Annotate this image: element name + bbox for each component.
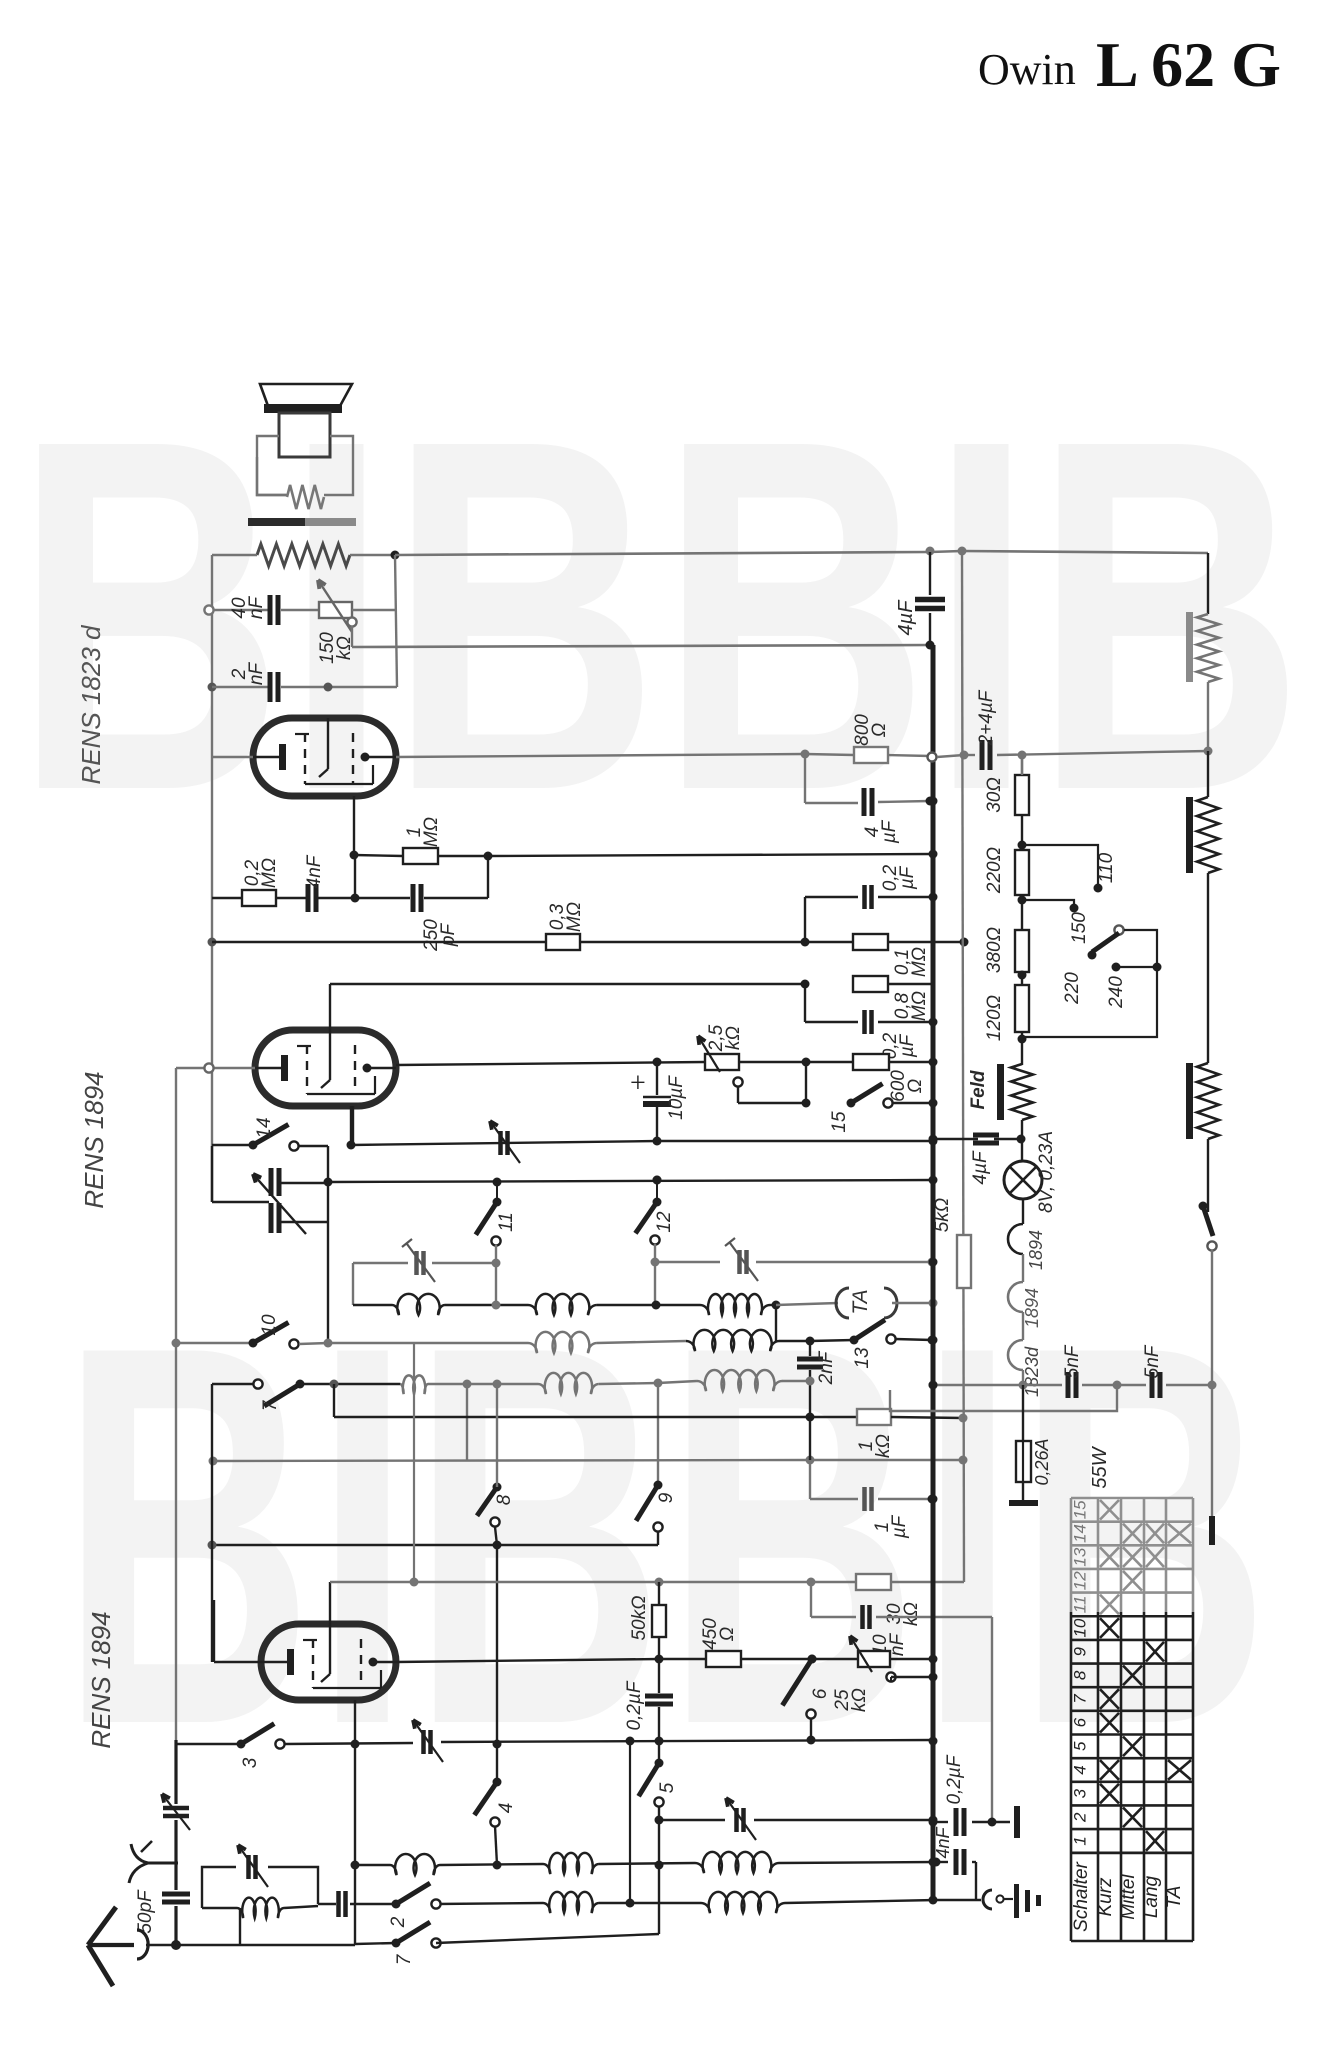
svg-text:1894: 1894 (1026, 1230, 1046, 1270)
svg-text:10: 10 (1071, 1618, 1090, 1637)
svg-text:8: 8 (494, 1494, 515, 1505)
svg-text:4: 4 (1071, 1765, 1090, 1774)
svg-text:0,2µF: 0,2µF (944, 1754, 965, 1804)
svg-text:7: 7 (260, 1399, 281, 1411)
svg-text:5: 5 (1071, 1741, 1090, 1751)
svg-text:4µF: 4µF (970, 1150, 991, 1185)
svg-text:5nF: 5nF (1142, 1344, 1163, 1378)
svg-text:Owin: Owin (978, 45, 1076, 94)
svg-text:8: 8 (1071, 1670, 1090, 1680)
svg-text:9: 9 (1071, 1646, 1090, 1656)
svg-text:2: 2 (388, 1916, 409, 1928)
svg-text:10: 10 (259, 1314, 280, 1336)
svg-text:0,1MΩ: 0,1MΩ (892, 947, 930, 977)
svg-text:50pF: 50pF (135, 1889, 156, 1934)
svg-text:4: 4 (496, 1803, 517, 1814)
svg-text:7: 7 (394, 1953, 415, 1965)
svg-text:Feld: Feld (968, 1070, 989, 1109)
svg-text:L 62 G: L 62 G (1096, 29, 1281, 100)
svg-text:150kΩ: 150kΩ (317, 632, 355, 664)
svg-text:0,2µF: 0,2µF (880, 864, 918, 891)
svg-text:RENS 1823 d: RENS 1823 d (76, 624, 106, 785)
svg-text:2+4µF: 2+4µF (976, 689, 997, 746)
svg-text:9: 9 (656, 1492, 677, 1503)
svg-text:Schalter: Schalter (1071, 1861, 1092, 1931)
svg-text:220Ω: 220Ω (984, 847, 1005, 894)
svg-text:4µF: 4µF (895, 599, 917, 636)
svg-text:TA: TA (849, 1289, 872, 1314)
svg-text:TA: TA (1164, 1886, 1185, 1909)
svg-text:25kΩ: 25kΩ (832, 1688, 870, 1712)
svg-text:12: 12 (654, 1211, 675, 1233)
svg-text:3: 3 (1071, 1788, 1090, 1798)
svg-text:11: 11 (1071, 1596, 1090, 1614)
svg-text:14: 14 (1071, 1524, 1090, 1543)
svg-text:8V, 0,23A: 8V, 0,23A (1036, 1131, 1057, 1213)
svg-text:0,26A: 0,26A (1032, 1438, 1052, 1485)
svg-text:+: + (630, 1068, 646, 1099)
svg-text:0,2MΩ: 0,2MΩ (242, 858, 280, 888)
svg-text:150: 150 (1069, 912, 1090, 944)
svg-text:2,5kΩ: 2,5kΩ (706, 1024, 744, 1052)
svg-text:7: 7 (1071, 1694, 1090, 1704)
svg-text:1823d: 1823d (1022, 1346, 1042, 1397)
svg-text:15: 15 (829, 1111, 850, 1133)
svg-text:240: 240 (1106, 976, 1127, 1009)
svg-text:30Ω: 30Ω (984, 777, 1005, 813)
svg-text:0,3MΩ: 0,3MΩ (547, 902, 585, 932)
svg-text:40nF: 40nF (229, 596, 267, 620)
svg-text:30kΩ: 30kΩ (884, 1602, 922, 1626)
svg-text:2nF: 2nF (816, 1350, 837, 1385)
svg-text:1: 1 (1071, 1836, 1090, 1845)
svg-text:600Ω: 600Ω (888, 1070, 926, 1102)
svg-text:5: 5 (657, 1782, 678, 1793)
svg-text:250pF: 250pF (421, 919, 459, 952)
svg-text:120Ω: 120Ω (984, 995, 1005, 1041)
svg-text:12: 12 (1071, 1571, 1090, 1590)
svg-text:Kurz: Kurz (1095, 1877, 1116, 1917)
svg-text:RENS 1894: RENS 1894 (86, 1611, 116, 1748)
svg-text:11: 11 (496, 1212, 517, 1232)
svg-text:4nF: 4nF (933, 1826, 953, 1858)
svg-text:380Ω: 380Ω (984, 927, 1005, 973)
svg-text:13: 13 (852, 1347, 873, 1369)
svg-text:4nF: 4nF (304, 854, 325, 888)
svg-text:10µF: 10µF (666, 1075, 687, 1120)
svg-text:15: 15 (1071, 1500, 1090, 1519)
svg-text:RENS 1894: RENS 1894 (79, 1071, 109, 1208)
svg-text:5nF: 5nF (1062, 1344, 1083, 1378)
svg-text:55W: 55W (1089, 1445, 1111, 1488)
svg-text:14: 14 (254, 1117, 275, 1138)
svg-text:6: 6 (810, 1688, 831, 1699)
svg-text:220: 220 (1062, 972, 1083, 1005)
svg-text:0,2µF: 0,2µF (624, 1680, 645, 1730)
svg-text:Lang: Lang (1141, 1875, 1162, 1918)
svg-text:0,8MΩ: 0,8MΩ (892, 991, 930, 1021)
svg-text:3: 3 (240, 1757, 261, 1768)
svg-text:50kΩ: 50kΩ (629, 1595, 650, 1640)
svg-text:2: 2 (1071, 1812, 1090, 1823)
svg-text:110: 110 (1096, 852, 1117, 883)
svg-text:1894: 1894 (1022, 1288, 1042, 1328)
svg-text:13: 13 (1071, 1547, 1090, 1566)
svg-text:6: 6 (1071, 1717, 1090, 1727)
svg-text:Mittel: Mittel (1118, 1874, 1139, 1920)
svg-text:5kΩ: 5kΩ (932, 1198, 953, 1233)
